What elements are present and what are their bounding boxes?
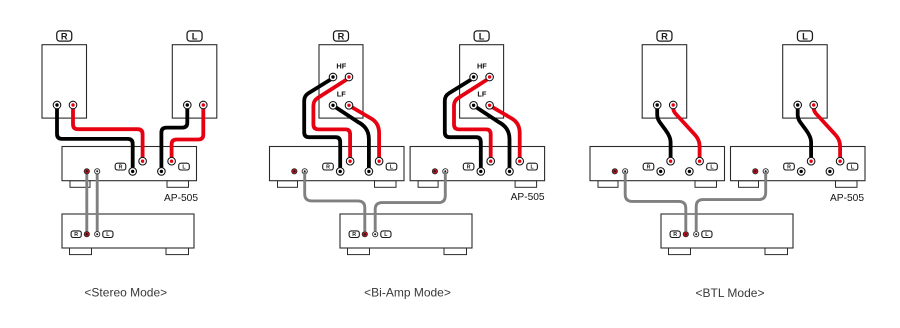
svg-text:R: R <box>119 165 123 171</box>
svg-text:R: R <box>352 232 356 238</box>
svg-text:L: L <box>192 31 198 41</box>
svg-text:<Bi-Amp Mode>: <Bi-Amp Mode> <box>364 286 451 300</box>
svg-text:R: R <box>338 31 345 41</box>
svg-text:LF: LF <box>477 89 487 98</box>
svg-text:L: L <box>479 31 485 41</box>
svg-text:R: R <box>647 165 651 171</box>
svg-text:R: R <box>661 31 668 41</box>
svg-text:LF: LF <box>337 89 347 98</box>
svg-text:L: L <box>802 31 808 41</box>
svg-text:R: R <box>74 232 78 238</box>
svg-text:AP-505: AP-505 <box>511 192 545 203</box>
svg-text:HF: HF <box>336 61 346 70</box>
svg-text:<BTL Mode>: <BTL Mode> <box>696 286 765 300</box>
svg-text:R: R <box>787 165 791 171</box>
svg-text:AP-505: AP-505 <box>164 193 198 204</box>
svg-text:R: R <box>61 31 68 41</box>
svg-text:HF: HF <box>477 61 487 70</box>
svg-text:R: R <box>673 232 677 238</box>
svg-text:R: R <box>467 165 471 171</box>
svg-text:AP-505: AP-505 <box>830 193 864 204</box>
svg-text:R: R <box>326 165 330 171</box>
svg-text:<Stereo Mode>: <Stereo Mode> <box>84 286 167 300</box>
